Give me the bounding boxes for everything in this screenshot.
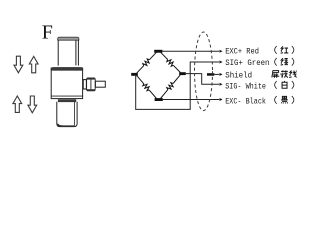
wire SIG- from right node (jog down) [186,74,220,85]
wire [137,75,157,98]
body top flange band [51,68,83,71]
cable gland stem [95,81,105,87]
resistor R3 (bottom-left arm) [143,84,149,91]
force arrow up (top-left pair) [29,56,38,72]
node EXC- (bridge bottom) [155,98,163,101]
svg-text:SIG+ Green: SIG+ Green [225,58,269,68]
wire [137,52,157,73]
cable gland collar [83,80,86,89]
load cell bottom stud [57,102,77,127]
cable gland hex nut [87,78,96,91]
wire [161,52,181,72]
svg-text:Shield: Shield [225,71,252,81]
wire EXC+ from top node [162,50,219,52]
wire EXC- from bottom node [163,99,220,101]
svg-text:SIG- White: SIG- White [225,81,266,91]
body bottom flange line [51,95,82,97]
svg-text:EXC- Black: EXC- Black [225,96,266,106]
load cell top stud [58,40,78,66]
wire SIG+ from left node (routed under bridge) [136,62,220,109]
load cell top stud cap [58,37,79,40]
svg-text:EXC+ Red: EXC+ Red [225,46,259,56]
node EXC+ (bridge top) [154,50,162,53]
wire Shield [214,73,219,75]
resistor R4 (bottom-right arm) [167,83,173,90]
force arrow down (top-left pair) [14,56,23,73]
node SIG- (bridge right) [179,72,186,75]
bottom stud shoulder band [58,100,76,102]
force arrow up (bottom-left pair) [13,96,22,112]
wire [161,75,181,99]
node SIG+ (bridge left) [131,73,138,76]
svg-text:F: F [42,21,53,43]
cable sheath ellipse (dashed) [195,32,213,111]
resistor R2 (top-right arm) [167,60,174,67]
resistor R1 (top-left arm) [143,59,150,66]
force arrow down (bottom-left pair) [28,96,37,113]
shield stub junction bar [207,73,214,76]
load cell body [51,68,82,99]
